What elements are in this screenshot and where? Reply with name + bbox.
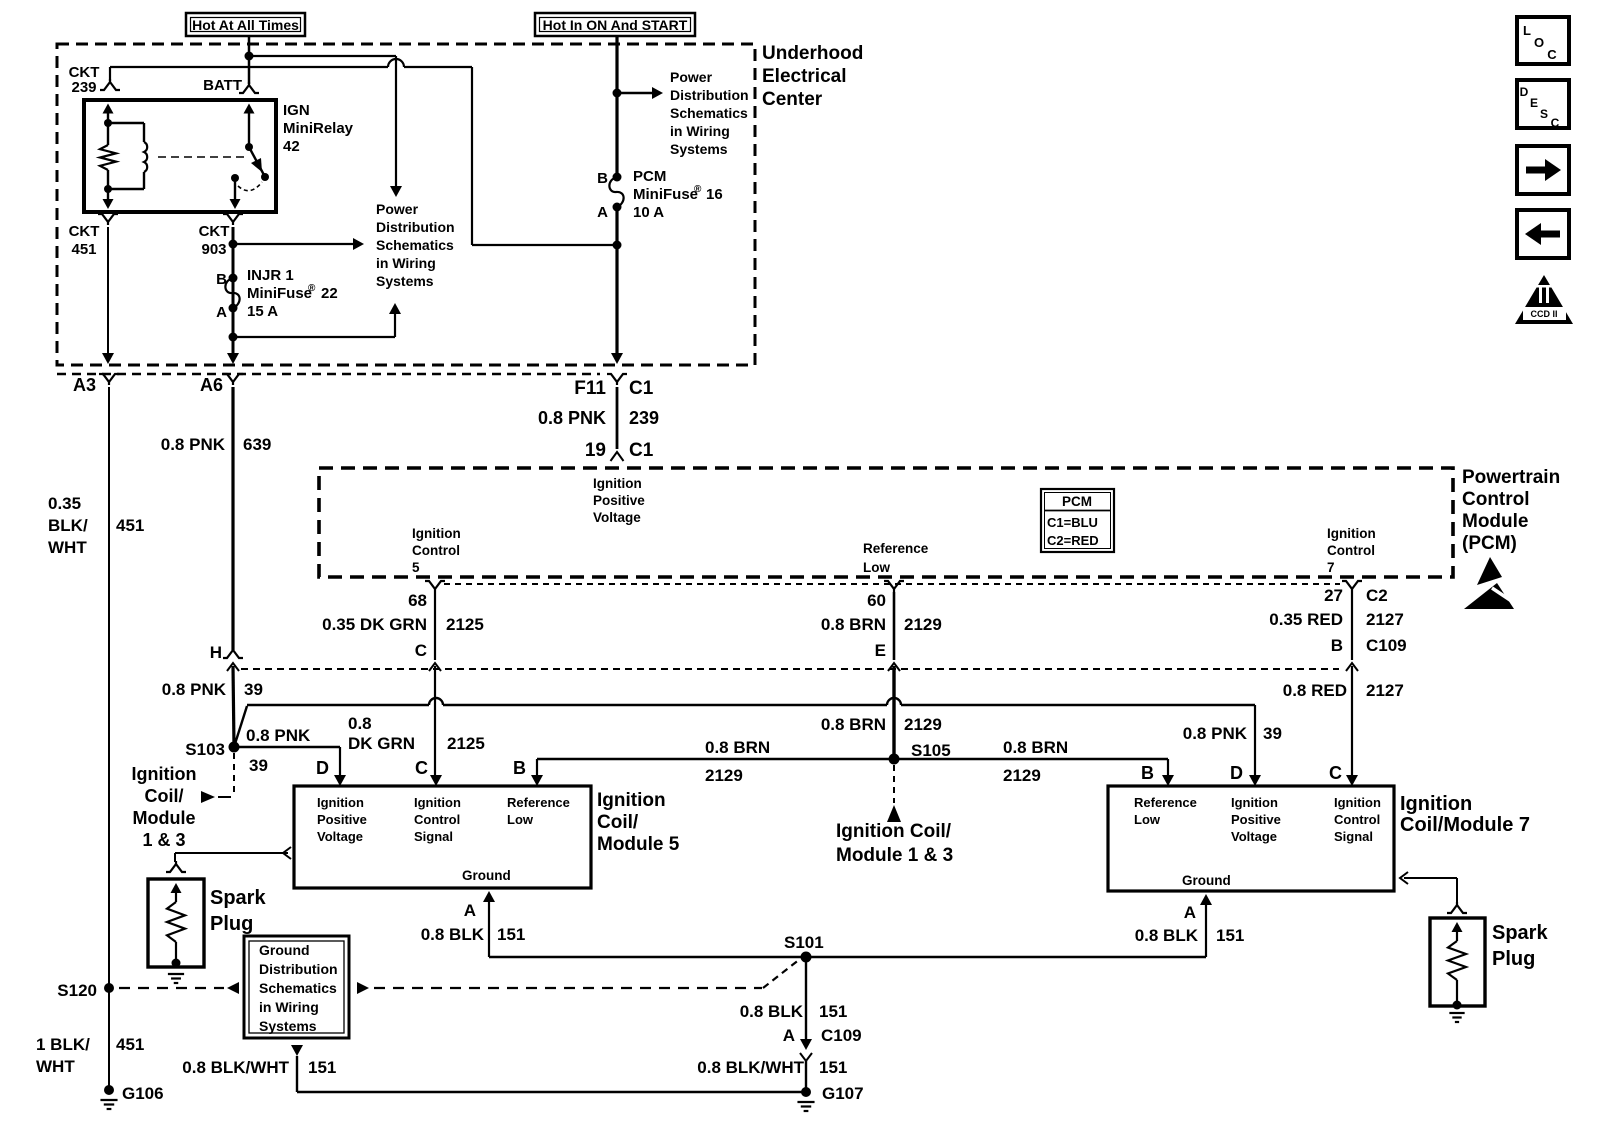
svg-text:Distribution: Distribution — [259, 961, 338, 977]
svg-text:Ignition: Ignition — [414, 795, 461, 810]
svg-text:39: 39 — [1263, 724, 1282, 743]
svg-text:B: B — [513, 758, 526, 778]
svg-text:Control: Control — [414, 812, 460, 827]
svg-text:0.8 BLK: 0.8 BLK — [740, 1002, 804, 1021]
svg-text:Hot At All Times: Hot At All Times — [192, 17, 299, 33]
svg-text:MiniFuse: MiniFuse — [247, 285, 312, 302]
svg-text:Ignition: Ignition — [1334, 795, 1381, 810]
svg-text:Distribution: Distribution — [376, 219, 455, 235]
svg-text:Module: Module — [1462, 511, 1529, 532]
svg-text:Control: Control — [1334, 812, 1380, 827]
svg-text:F11: F11 — [574, 378, 606, 399]
svg-text:C2=RED: C2=RED — [1047, 533, 1099, 548]
svg-text:H: H — [210, 643, 222, 662]
svg-text:0.8 PNK: 0.8 PNK — [1183, 724, 1248, 743]
svg-text:2125: 2125 — [447, 734, 485, 753]
svg-text:PCM: PCM — [633, 168, 666, 185]
svg-text:Coil/: Coil/ — [597, 812, 639, 833]
svg-text:E: E — [1530, 96, 1538, 110]
svg-text:BATT: BATT — [203, 77, 242, 94]
svg-text:C: C — [415, 758, 428, 778]
svg-text:in Wiring: in Wiring — [259, 999, 319, 1015]
svg-text:Module 1 & 3: Module 1 & 3 — [836, 845, 953, 866]
svg-text:151: 151 — [497, 925, 525, 944]
svg-text:Signal: Signal — [1334, 829, 1373, 844]
svg-text:0.8 PNK: 0.8 PNK — [246, 726, 311, 745]
svg-text:Plug: Plug — [1492, 948, 1535, 970]
svg-text:Voltage: Voltage — [317, 829, 363, 844]
svg-text:Module 5: Module 5 — [597, 834, 680, 855]
svg-text:Distribution: Distribution — [670, 87, 749, 103]
svg-text:Schematics: Schematics — [259, 980, 337, 996]
svg-text:Plug: Plug — [210, 913, 253, 935]
svg-text:L: L — [1523, 23, 1531, 38]
svg-text:151: 151 — [819, 1002, 847, 1021]
svg-text:B: B — [216, 271, 227, 288]
svg-text:CCD II: CCD II — [1531, 309, 1558, 319]
svg-text:S120: S120 — [57, 981, 97, 1000]
svg-text:C: C — [1547, 47, 1557, 62]
svg-text:S105: S105 — [911, 741, 951, 760]
svg-text:0.8 BLK/WHT: 0.8 BLK/WHT — [182, 1058, 289, 1077]
svg-text:27: 27 — [1324, 586, 1343, 605]
svg-text:639: 639 — [243, 435, 271, 454]
svg-text:C109: C109 — [1366, 636, 1407, 655]
svg-text:Ignition: Ignition — [593, 476, 642, 491]
svg-text:39: 39 — [249, 756, 268, 775]
svg-text:0.8 BRN: 0.8 BRN — [821, 715, 886, 734]
svg-text:Coil/: Coil/ — [145, 786, 184, 806]
svg-text:0.8 BLK/WHT: 0.8 BLK/WHT — [697, 1058, 804, 1077]
svg-text:Electrical: Electrical — [762, 66, 847, 87]
svg-text:DK GRN: DK GRN — [348, 734, 415, 753]
svg-text:Positive: Positive — [593, 493, 645, 508]
svg-text:19: 19 — [585, 440, 606, 461]
svg-text:2127: 2127 — [1366, 610, 1404, 629]
svg-text:Underhood: Underhood — [762, 43, 863, 64]
svg-text:Spark: Spark — [210, 887, 266, 909]
svg-text:D: D — [316, 758, 329, 778]
svg-text:D: D — [1520, 85, 1529, 99]
svg-text:Signal: Signal — [414, 829, 453, 844]
svg-text:0.8 PNK: 0.8 PNK — [161, 435, 226, 454]
svg-text:2125: 2125 — [446, 615, 484, 634]
svg-text:G106: G106 — [122, 1084, 164, 1103]
svg-text:Ignition: Ignition — [412, 526, 461, 541]
svg-text:0.8 PNK: 0.8 PNK — [162, 680, 227, 699]
svg-text:Systems: Systems — [259, 1018, 317, 1034]
svg-text:Hot In ON And START: Hot In ON And START — [543, 17, 688, 33]
svg-text:G107: G107 — [822, 1084, 864, 1103]
svg-text:in Wiring: in Wiring — [670, 123, 730, 139]
svg-text:451: 451 — [71, 241, 96, 258]
svg-text:A: A — [1184, 903, 1196, 922]
svg-text:A6: A6 — [200, 375, 223, 395]
svg-text:BLK/: BLK/ — [48, 516, 88, 535]
svg-text:0.8 RED: 0.8 RED — [1283, 681, 1347, 700]
svg-text:0.35 RED: 0.35 RED — [1269, 610, 1343, 629]
svg-text:0.35: 0.35 — [48, 494, 81, 513]
svg-text:60: 60 — [867, 591, 886, 610]
svg-text:15 A: 15 A — [247, 303, 278, 320]
svg-text:239: 239 — [629, 408, 659, 428]
svg-text:S103: S103 — [185, 740, 225, 759]
svg-text:Positive: Positive — [1231, 812, 1281, 827]
svg-text:WHT: WHT — [36, 1057, 75, 1076]
svg-text:O: O — [1534, 35, 1544, 50]
svg-text:151: 151 — [1216, 926, 1244, 945]
svg-text:Spark: Spark — [1492, 922, 1548, 944]
svg-text:451: 451 — [116, 516, 144, 535]
svg-text:2129: 2129 — [705, 766, 743, 785]
svg-text:0.8 PNK: 0.8 PNK — [538, 408, 606, 428]
svg-text:0.35 DK GRN: 0.35 DK GRN — [322, 615, 427, 634]
svg-text:Ignition: Ignition — [132, 764, 197, 784]
svg-text:S: S — [1540, 107, 1548, 121]
svg-text:A: A — [216, 304, 227, 321]
svg-text:Systems: Systems — [376, 273, 434, 289]
svg-text:Ignition: Ignition — [1231, 795, 1278, 810]
svg-text:(PCM): (PCM) — [1462, 533, 1517, 554]
svg-text:A: A — [783, 1026, 795, 1045]
svg-text:10 A: 10 A — [633, 204, 664, 221]
svg-text:68: 68 — [408, 591, 427, 610]
svg-text:E: E — [875, 641, 886, 660]
svg-text:A: A — [464, 901, 476, 920]
svg-text:Ignition: Ignition — [597, 790, 666, 811]
svg-text:0.8: 0.8 — [348, 714, 372, 733]
svg-text:C109: C109 — [821, 1026, 862, 1045]
svg-text:0.8 BRN: 0.8 BRN — [1003, 738, 1068, 757]
svg-text:Ignition: Ignition — [317, 795, 364, 810]
svg-text:B: B — [597, 170, 608, 187]
svg-text:Control: Control — [1327, 543, 1375, 558]
svg-text:151: 151 — [308, 1058, 336, 1077]
svg-text:Low: Low — [863, 560, 890, 575]
svg-text:C: C — [1329, 763, 1342, 783]
svg-text:INJR 1: INJR 1 — [247, 267, 294, 284]
svg-text:239: 239 — [71, 79, 96, 96]
svg-text:39: 39 — [244, 680, 263, 699]
svg-text:A3: A3 — [73, 375, 96, 395]
svg-text:A: A — [597, 204, 608, 221]
svg-text:Ground: Ground — [259, 942, 310, 958]
svg-text:0.8 BLK: 0.8 BLK — [421, 925, 485, 944]
svg-text:Power: Power — [670, 69, 713, 85]
svg-text:1 BLK/: 1 BLK/ — [36, 1035, 90, 1054]
svg-text:B: B — [1331, 636, 1343, 655]
svg-text:C1=BLU: C1=BLU — [1047, 515, 1098, 530]
svg-text:151: 151 — [819, 1058, 847, 1077]
svg-text:Voltage: Voltage — [593, 510, 641, 525]
svg-text:16: 16 — [706, 186, 723, 203]
svg-text:451: 451 — [116, 1035, 144, 1054]
svg-text:C1: C1 — [629, 378, 654, 399]
svg-text:0.8 BLK: 0.8 BLK — [1135, 926, 1199, 945]
svg-text:C2: C2 — [1366, 586, 1388, 605]
svg-text:2129: 2129 — [904, 615, 942, 634]
svg-text:Voltage: Voltage — [1231, 829, 1277, 844]
svg-text:Reference: Reference — [1134, 795, 1197, 810]
svg-text:C: C — [1551, 116, 1560, 130]
svg-text:903: 903 — [201, 241, 226, 258]
svg-text:®: ® — [308, 283, 316, 294]
svg-text:Coil/Module 7: Coil/Module 7 — [1400, 814, 1530, 836]
svg-text:Center: Center — [762, 89, 823, 110]
svg-text:Ground: Ground — [1182, 873, 1231, 888]
svg-text:Schematics: Schematics — [670, 105, 748, 121]
svg-text:MiniFuse: MiniFuse — [633, 186, 698, 203]
svg-text:in Wiring: in Wiring — [376, 255, 436, 271]
svg-text:CKT: CKT — [199, 223, 230, 240]
svg-text:®: ® — [694, 184, 702, 195]
svg-text:0.8 BRN: 0.8 BRN — [705, 738, 770, 757]
svg-text:S101: S101 — [784, 933, 824, 952]
svg-text:0.8 BRN: 0.8 BRN — [821, 615, 886, 634]
svg-text:PCM: PCM — [1062, 494, 1092, 509]
svg-text:Ground: Ground — [462, 868, 511, 883]
svg-text:2127: 2127 — [1366, 681, 1404, 700]
svg-text:Systems: Systems — [670, 141, 728, 157]
svg-text:IGN: IGN — [283, 102, 310, 119]
svg-text:B: B — [1141, 763, 1154, 783]
svg-text:Schematics: Schematics — [376, 237, 454, 253]
svg-text:C1: C1 — [629, 440, 654, 461]
svg-text:Control: Control — [1462, 489, 1530, 510]
svg-text:Reference: Reference — [507, 795, 570, 810]
svg-text:Low: Low — [507, 812, 534, 827]
svg-text:C: C — [415, 641, 427, 660]
svg-text:2129: 2129 — [1003, 766, 1041, 785]
svg-text:Power: Power — [376, 201, 419, 217]
svg-text:2129: 2129 — [904, 715, 942, 734]
svg-text:1 & 3: 1 & 3 — [142, 830, 185, 850]
svg-text:Ignition Coil/: Ignition Coil/ — [836, 821, 952, 842]
svg-text:D: D — [1230, 763, 1243, 783]
svg-text:Reference: Reference — [863, 541, 929, 556]
svg-text:5: 5 — [412, 560, 420, 575]
svg-text:MiniRelay: MiniRelay — [283, 120, 354, 137]
svg-text:7: 7 — [1327, 560, 1335, 575]
svg-text:Module: Module — [133, 808, 196, 828]
svg-text:CKT: CKT — [69, 223, 100, 240]
svg-text:WHT: WHT — [48, 538, 87, 557]
svg-text:Powertrain: Powertrain — [1462, 467, 1560, 488]
svg-text:Ignition: Ignition — [1327, 526, 1376, 541]
svg-text:Ignition: Ignition — [1400, 793, 1472, 815]
svg-text:Positive: Positive — [317, 812, 367, 827]
svg-text:22: 22 — [321, 285, 338, 302]
svg-text:42: 42 — [283, 138, 300, 155]
svg-text:Control: Control — [412, 543, 460, 558]
svg-text:Low: Low — [1134, 812, 1161, 827]
